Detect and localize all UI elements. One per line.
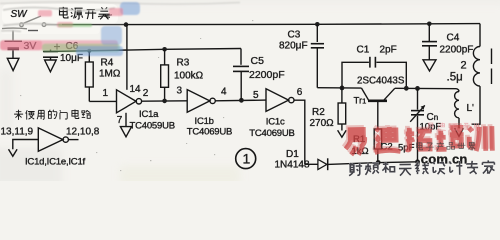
svg-text:C3: C3 — [288, 30, 301, 41]
wire IC1a out to IC1b in — [142, 100, 188, 102]
node top rail / C3 — [315, 22, 320, 27]
bottom rail after diode — [378, 161, 417, 164]
svg-text:100kΩ: 100kΩ — [174, 71, 204, 82]
arrow (unused inputs to gnd elsewhere) — [9, 149, 18, 156]
resistor R4 1M — [85, 51, 93, 102]
svg-text:820μF: 820μF — [279, 41, 308, 52]
svg-text:1: 1 — [243, 151, 251, 167]
svg-text:7: 7 — [117, 115, 123, 126]
watermark small pink echo — [427, 123, 478, 132]
transistor Tr1 2SC4043S — [362, 88, 395, 129]
capacitor C6 10uF — [43, 44, 60, 60]
svg-text:Tr1: Tr1 — [354, 95, 367, 106]
svg-text:TC4059UB: TC4059UB — [130, 120, 175, 131]
second supply rail — [44, 49, 241, 52]
watermark big red logo text — [343, 123, 490, 153]
node Cn / bottom rail — [415, 159, 420, 164]
watermark slogan 射频和天线设计专家 halo — [349, 160, 495, 176]
svg-text:IC1c: IC1c — [266, 116, 285, 127]
svg-text:TC4069UB: TC4069UB — [187, 126, 232, 137]
node R3 / signal — [162, 99, 167, 104]
inverter IC1c — [266, 89, 294, 112]
svg-text:4: 4 — [221, 87, 227, 98]
op-amp/inverter IC1a — [117, 90, 142, 113]
svg-text:6: 6 — [297, 87, 303, 98]
resistor R1 1k — [374, 129, 381, 163]
node rail / R3 — [162, 47, 167, 52]
battery B1 3V — [2, 28, 27, 49]
trimmer capacitor Cn 10pF — [410, 88, 425, 161]
svg-text:R4: R4 — [101, 58, 114, 69]
svg-text:2200pF: 2200pF — [440, 44, 474, 55]
arrow (L' down / antenna) — [455, 128, 464, 136]
svg-text:3: 3 — [177, 86, 183, 97]
pin 14 wire — [126, 25, 128, 90]
node C1 right — [404, 86, 409, 91]
svg-text:R3: R3 — [177, 58, 190, 69]
capacitor C3 820uF — [311, 24, 324, 87]
inductor L' — [455, 89, 459, 129]
svg-text:R2: R2 — [312, 107, 325, 118]
node Cn top — [415, 86, 420, 91]
inverter IC1b — [187, 90, 215, 113]
arrow (R2 to gnd elsewhere) — [338, 130, 347, 137]
node top rail / pin14 — [124, 22, 129, 27]
svg-text:12,10,8: 12,10,8 — [66, 127, 100, 138]
svg-text:SW: SW — [11, 9, 29, 20]
circled number 1 — [236, 149, 256, 169]
watermark small dark text 电子产品世界 — [417, 142, 476, 151]
resistor R3 100k — [161, 49, 169, 101]
svg-text:IC1a: IC1a — [139, 109, 159, 120]
base node rail — [317, 87, 361, 89]
svg-text:C1: C1 — [357, 44, 370, 55]
svg-text:C4: C4 — [447, 33, 460, 44]
label 未使用的门电路 — [14, 110, 91, 120]
node top rail / C4 — [427, 22, 432, 27]
ground (C6) — [45, 60, 57, 72]
top VDD rail — [126, 24, 480, 25]
pin 7 wire — [125, 113, 127, 127]
label 电源开关 — [59, 7, 109, 20]
svg-text:5: 5 — [253, 90, 259, 101]
svg-text:2: 2 — [143, 88, 149, 99]
svg-text:1N4148: 1N4148 — [275, 159, 310, 170]
svg-text:IC1d,IC1e,IC1f: IC1d,IC1e,IC1f — [25, 157, 86, 168]
svg-text:14: 14 — [130, 84, 142, 95]
collector node rail — [395, 87, 457, 89]
svg-text:2SC4043S: 2SC4043S — [357, 76, 405, 87]
capacitor C1 2pF — [342, 57, 406, 88]
ground (IC1a pin7) — [120, 127, 131, 137]
svg-text:L': L' — [467, 103, 475, 114]
svg-text:C5: C5 — [251, 55, 265, 67]
diode D1 1N4148 — [305, 158, 378, 170]
watermark slogan main strokes — [349, 160, 495, 176]
ground (C4) — [423, 60, 436, 71]
svg-text:1MΩ: 1MΩ — [99, 69, 121, 80]
core lines L2 — [491, 49, 493, 85]
ground (battery) — [7, 58, 19, 70]
wire R4 to IC1a input — [89, 100, 116, 102]
inductor L2 2.5uH — [472, 24, 481, 125]
wire IC1b out to IC1c in — [215, 99, 266, 102]
svg-text:270Ω: 270Ω — [310, 118, 335, 129]
node C1 left / R2 — [340, 86, 345, 91]
switch SW — [20, 16, 62, 27]
svg-text:2pF: 2pF — [380, 45, 397, 56]
node rail / R4 — [87, 49, 91, 53]
svg-text:TC4069UB: TC4069UB — [249, 128, 294, 139]
node C5 / signal — [239, 98, 244, 103]
svg-text:D1: D1 — [286, 149, 299, 160]
unused gates inverter IC1d IC1e IC1f — [13, 128, 79, 151]
node R1 / bottom rail — [376, 160, 381, 165]
svg-text:.5μ: .5μ — [447, 72, 463, 84]
wire battery minus to ground — [12, 50, 14, 58]
svg-text:1: 1 — [103, 88, 109, 99]
capacitor C5 2200pF — [233, 49, 249, 101]
wire switch to top rail — [62, 24, 126, 26]
resistor R2 270 — [338, 88, 346, 131]
svg-text:2200pF: 2200pF — [249, 69, 285, 81]
wire IC1c out, down to D1 — [294, 100, 305, 164]
svg-text:13,11,9: 13,11,9 — [1, 127, 34, 138]
capacitor C4 2200pF — [422, 24, 437, 60]
svg-text:2: 2 — [461, 59, 467, 71]
